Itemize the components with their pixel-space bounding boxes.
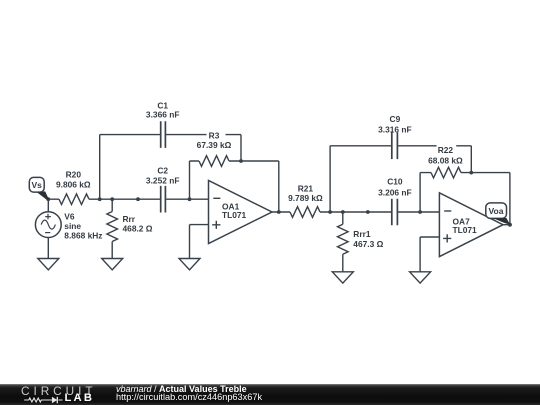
svg-text:9.789 kΩ: 9.789 kΩ [288, 193, 323, 203]
svg-text:R22: R22 [438, 145, 454, 155]
svg-text:TL071: TL071 [222, 210, 247, 220]
svg-text:9.806 kΩ: 9.806 kΩ [56, 179, 91, 189]
svg-text:C2: C2 [157, 166, 168, 176]
svg-text:Rrr1: Rrr1 [353, 229, 371, 239]
svg-text:3.206 nF: 3.206 nF [378, 188, 412, 198]
svg-text:3.316 nF: 3.316 nF [378, 124, 412, 134]
svg-text:68.08 kΩ: 68.08 kΩ [428, 156, 463, 166]
svg-text:3.366 nF: 3.366 nF [146, 110, 180, 120]
svg-text:468.2 Ω: 468.2 Ω [123, 224, 153, 234]
svg-text:C9: C9 [390, 114, 401, 124]
svg-text:3.252 nF: 3.252 nF [146, 175, 180, 185]
svg-text:67.39 kΩ: 67.39 kΩ [197, 140, 232, 150]
svg-text:Vs: Vs [31, 180, 42, 190]
svg-text:Rrr: Rrr [123, 214, 136, 224]
svg-text:sine: sine [64, 221, 81, 231]
svg-text:R20: R20 [66, 169, 82, 179]
svg-text:R3: R3 [209, 130, 220, 140]
svg-text:467.3 Ω: 467.3 Ω [353, 239, 383, 249]
svg-text:Voa: Voa [489, 206, 504, 216]
svg-text:V6: V6 [64, 211, 75, 221]
svg-text:TL071: TL071 [453, 225, 478, 235]
svg-text:R21: R21 [298, 184, 314, 194]
svg-text:C10: C10 [387, 177, 403, 187]
svg-text:8.868 kHz: 8.868 kHz [64, 231, 102, 241]
